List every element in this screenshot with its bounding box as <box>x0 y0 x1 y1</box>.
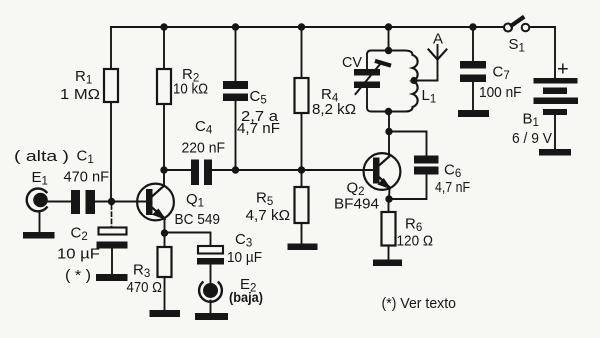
label R6 <box>397 216 434 250</box>
ground E1 <box>23 232 55 239</box>
wire Q1 collector lead <box>163 170 165 186</box>
wire C4 bus right to Q2 base <box>212 169 373 171</box>
wire C7 bottom lead <box>472 82 474 110</box>
label R4 <box>312 86 356 118</box>
wire E1 ground lead <box>39 212 41 233</box>
svg-text:C4: C4 <box>195 118 213 137</box>
node C6-top branch <box>385 128 392 135</box>
wire C6 top loop <box>389 132 427 156</box>
svg-text:6 / 9 V: 6 / 9 V <box>512 130 552 147</box>
label Q1 <box>175 191 221 228</box>
label C4 <box>182 118 226 157</box>
svg-text:R1: R1 <box>75 68 92 87</box>
capacitor C2 <box>99 228 127 235</box>
resistor R3 <box>164 233 166 247</box>
node R4-R5-bus <box>298 166 305 173</box>
wire R2 bottom to C4 node <box>163 104 165 170</box>
svg-text:10 kΩ: 10 kΩ <box>173 81 208 98</box>
node L1 tap <box>410 77 417 84</box>
wire Q1 emitter lead <box>164 219 166 234</box>
svg-text:8,2 kΩ: 8,2 kΩ <box>312 101 356 118</box>
jack E2 <box>199 282 222 302</box>
label C2 <box>57 225 100 285</box>
wire C2 ground lead <box>111 249 113 275</box>
svg-text:C1: C1 <box>77 148 94 167</box>
wire C5 top lead <box>235 27 237 81</box>
wire R2 top lead <box>163 27 165 69</box>
svg-text:(baja): (baja) <box>229 290 263 305</box>
transistor Q1 <box>137 184 174 221</box>
svg-text:E1: E1 <box>32 169 48 188</box>
wire tank top <box>371 50 405 52</box>
svg-text:100 nF: 100 nF <box>479 84 522 101</box>
ground R3 <box>150 310 181 317</box>
node tank-bottom <box>385 108 392 115</box>
wire CV arrow <box>356 63 382 94</box>
wire tap to antenna <box>414 45 438 81</box>
resistor R5 <box>295 187 309 223</box>
svg-text:R6: R6 <box>405 216 422 235</box>
node rail-C5 <box>232 23 239 30</box>
wire R5 bottom lead <box>301 223 303 244</box>
svg-text:B1: B1 <box>523 111 539 130</box>
node rail-R2 <box>160 23 167 30</box>
label R1 <box>60 68 100 103</box>
svg-text:470 nF: 470 nF <box>64 169 110 186</box>
label C3 <box>227 231 262 266</box>
wire R4 top lead <box>301 27 303 78</box>
svg-text:+: + <box>557 59 569 81</box>
svg-text:C5: C5 <box>250 88 267 107</box>
wire C1 to Q1 base <box>95 201 146 203</box>
transistor Q2 <box>364 153 401 190</box>
jack E1 <box>27 189 47 212</box>
svg-text:Q1: Q1 <box>186 191 204 210</box>
svg-text:120 Ω: 120 Ω <box>397 233 434 250</box>
wire R3 bottom lead <box>164 277 166 310</box>
node base <box>108 198 115 205</box>
svg-text:L1: L1 <box>422 87 437 106</box>
resistor R4 <box>295 78 309 113</box>
capacitor C7 <box>460 61 486 82</box>
wire tank to Q2 collector <box>388 112 390 156</box>
capacitor C3 <box>198 246 223 254</box>
wire R4 bottom lead <box>301 113 303 170</box>
node tank-top <box>385 47 392 54</box>
svg-text:( * ): ( * ) <box>65 267 91 284</box>
wire tank bottom <box>367 108 405 112</box>
label C7 <box>479 64 522 102</box>
wire E2 ground lead <box>210 301 212 314</box>
ground C2 <box>96 274 128 281</box>
label C1 <box>64 148 110 186</box>
svg-text:( alta ): ( alta ) <box>14 148 69 165</box>
capacitor C5 <box>223 81 248 101</box>
svg-text:220 nF: 220 nF <box>182 140 226 157</box>
svg-text:10 µF: 10 µF <box>227 249 262 266</box>
capacitor C4 <box>191 160 212 186</box>
wire CV top lead <box>366 55 368 70</box>
svg-text:CV: CV <box>342 54 362 71</box>
wire dashed to C2 <box>111 205 113 227</box>
wire emitter to C3 <box>165 233 211 247</box>
svg-text:1 MΩ: 1 MΩ <box>60 86 100 103</box>
svg-text:C6: C6 <box>444 162 461 181</box>
capacitor C1 <box>71 190 95 214</box>
svg-text:A: A <box>433 31 443 48</box>
capacitor CV <box>354 69 380 88</box>
svg-text:BC 549: BC 549 <box>175 211 221 228</box>
capacitor C6 <box>414 156 439 175</box>
wire R6 bottom lead <box>388 246 390 260</box>
node rail-R4 <box>298 23 305 30</box>
svg-text:BF494: BF494 <box>334 196 379 213</box>
svg-text:470 Ω: 470 Ω <box>127 279 163 296</box>
svg-text:(*) Ver texto: (*) Ver texto <box>382 295 457 312</box>
svg-text:C7: C7 <box>493 64 510 83</box>
wire tank feed <box>388 27 390 51</box>
battery B1 <box>534 78 579 115</box>
node emitter Q2 <box>385 195 392 202</box>
resistor R1 <box>104 69 118 102</box>
svg-text:10 µF: 10 µF <box>57 246 100 263</box>
ground B1 <box>539 149 571 156</box>
switch S1 <box>504 24 512 32</box>
wire B1 bottom lead <box>554 115 556 149</box>
label E2 <box>229 276 263 305</box>
wire C4 bus left <box>164 169 191 171</box>
svg-text:4,7 nF: 4,7 nF <box>237 120 280 137</box>
svg-text:R3: R3 <box>133 262 150 281</box>
wire S1 to battery <box>530 27 556 78</box>
node rail-tank <box>385 23 392 30</box>
svg-text:R5: R5 <box>256 190 273 209</box>
node C4-left <box>160 166 167 173</box>
wire E1 to C1 <box>47 201 71 203</box>
wire CV bottom lead <box>366 88 368 108</box>
label Q2 <box>334 180 379 213</box>
node C5-bus <box>232 166 239 173</box>
resistor R2 <box>157 69 171 104</box>
antenna A <box>429 50 447 60</box>
wire C6 bottom loop <box>389 175 427 200</box>
ground C7 <box>458 110 489 117</box>
resistor R6 <box>388 199 390 212</box>
svg-text:4,7 kΩ: 4,7 kΩ <box>246 207 291 224</box>
inductor L1 <box>405 51 418 112</box>
node rail-C7 <box>469 23 476 30</box>
ground E2 <box>195 313 228 320</box>
wire R1 bottom to base node <box>110 102 112 202</box>
label C5 <box>237 88 280 137</box>
label C6 <box>435 162 470 197</box>
wire C5 bottom lead <box>235 101 237 170</box>
label B1 <box>512 111 552 148</box>
ground R6 <box>373 260 402 267</box>
ground R5 <box>288 244 318 251</box>
label R5 <box>246 190 291 225</box>
label R2 <box>173 66 208 98</box>
svg-text:S1: S1 <box>509 36 525 55</box>
svg-text:C2: C2 <box>71 225 88 244</box>
svg-text:C3: C3 <box>235 231 252 250</box>
wire C7 top lead <box>472 27 474 61</box>
wire top rail <box>111 26 504 28</box>
svg-text:4,7 nF: 4,7 nF <box>435 179 470 196</box>
label R3 <box>127 262 163 297</box>
wire R1 top lead <box>110 27 112 69</box>
node emitter Q1 <box>161 229 168 236</box>
wire R5 top lead <box>301 170 303 187</box>
wire C3 to E2 <box>210 265 212 284</box>
wire Q2 emitter lead <box>388 188 391 199</box>
